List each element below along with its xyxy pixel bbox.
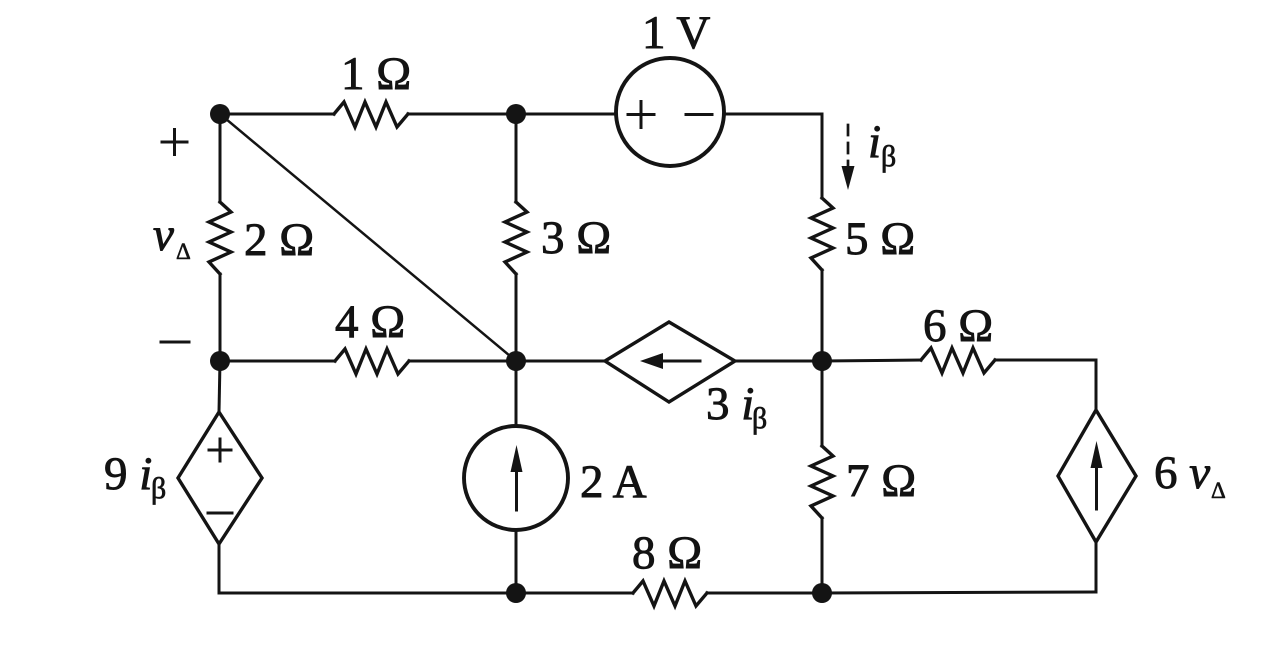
i-beta dashed arrow <box>847 125 850 170</box>
wire mid-left node to 4-ohm <box>220 360 335 363</box>
wire top-left node to 1-ohm resistor <box>220 113 334 116</box>
diagonal wire from top-left node to mid-middle node <box>220 114 516 361</box>
resistor R 8 ohm <box>633 581 707 606</box>
svg-text:8 Ω: 8 Ω <box>632 527 702 579</box>
svg-text:7 Ω: 7 Ω <box>846 455 916 507</box>
svg-text:i: i <box>868 116 881 168</box>
svg-text:Δ: Δ <box>176 239 191 264</box>
resistor R 3 ohm <box>505 202 527 274</box>
resistor R 4 ohm <box>335 349 409 374</box>
node A top-left <box>210 104 230 124</box>
wire 7-ohm to bottom-right-mid node <box>821 518 824 593</box>
wire 6vd diamond to far-right bottom corner <box>1095 542 1098 592</box>
node G bottom-right-mid <box>812 583 832 603</box>
svg-text:β: β <box>752 402 767 435</box>
node B top-middle <box>506 104 526 124</box>
resistor R 6 ohm <box>921 348 995 373</box>
wire 1-ohm to top-middle node <box>408 113 516 116</box>
dependent current source 3 i-beta diamond <box>605 322 735 402</box>
resistor R 5 ohm <box>811 198 833 270</box>
9ib plus sign <box>209 439 231 461</box>
wire 5-ohm to mid-right node <box>821 270 824 361</box>
node F bottom-middle <box>506 583 526 603</box>
resistor R 1 ohm <box>334 102 408 127</box>
wire 2-ohm to mid-left node <box>219 274 222 361</box>
wire mid-left node down to 9ib diamond <box>219 361 220 412</box>
3ib arrow inside diamond <box>655 360 700 363</box>
9ib minus sign <box>208 512 232 515</box>
wire mid-middle node down to 2A source <box>515 361 518 426</box>
wire mid-middle node to 3ib diamond <box>516 360 605 363</box>
wire top-middle node down to 3-ohm <box>515 114 518 202</box>
svg-text:2 Ω: 2 Ω <box>244 214 314 266</box>
wire mid-right node down to 7-ohm <box>821 361 824 446</box>
wire 3-ohm to mid-middle node <box>515 274 518 361</box>
wire bottom-middle node to 8-ohm <box>516 592 633 595</box>
svg-text:6 Ω: 6 Ω <box>923 300 993 352</box>
dependent current source 6 v-delta diamond <box>1058 410 1136 542</box>
minus sign v-delta bottom <box>161 341 189 344</box>
svg-text:v: v <box>153 209 174 261</box>
svg-text:6 v: 6 v <box>1154 447 1210 499</box>
wire far-right top corner down to 6vd diamond <box>1095 360 1098 410</box>
plus sign v-delta top <box>162 130 187 155</box>
svg-text:3 Ω: 3 Ω <box>541 212 611 264</box>
svg-text:3 i: 3 i <box>706 378 754 430</box>
wire 3ib diamond to mid-right node <box>735 360 822 363</box>
svg-text:β: β <box>151 472 166 505</box>
6vd arrow <box>1095 460 1098 509</box>
node E mid-right <box>812 351 832 371</box>
current source 2A circle <box>464 426 568 530</box>
svg-text:1 V: 1 V <box>642 7 710 59</box>
wire top-middle node to 1V source <box>516 113 616 116</box>
svg-text:2 A: 2 A <box>580 456 647 508</box>
1V minus sign <box>686 113 712 116</box>
svg-text:9 i: 9 i <box>104 448 152 500</box>
resistor R 7 ohm <box>811 446 833 518</box>
wire top-left node down to 2-ohm <box>219 114 222 202</box>
wire 4-ohm to mid-middle node <box>409 360 516 363</box>
svg-text:4 Ω: 4 Ω <box>335 296 405 348</box>
svg-text:Δ: Δ <box>1211 478 1226 503</box>
voltage source 1V circle <box>616 58 724 166</box>
svg-text:5 Ω: 5 Ω <box>845 213 915 265</box>
1V plus sign <box>628 102 654 128</box>
wire 9ib diamond to bottom-left corner <box>218 544 221 593</box>
dependent voltage source 9 i-beta diamond <box>178 412 262 544</box>
wire 2A source to bottom-middle node <box>515 530 518 593</box>
wire 1V source to top-right corner <box>724 113 822 116</box>
wire 6-ohm to far-right top corner <box>995 359 1096 362</box>
bottom wire left section <box>219 592 516 595</box>
svg-text:1 Ω: 1 Ω <box>341 48 411 100</box>
node D mid-middle <box>506 351 526 371</box>
wire top-right corner down to 5-ohm <box>821 114 824 198</box>
bottom wire right section <box>822 592 1096 593</box>
2A arrow <box>515 462 518 510</box>
resistor R 2 ohm <box>209 202 231 274</box>
svg-text:β: β <box>881 140 896 173</box>
wire mid-right node to 6-ohm <box>822 360 921 361</box>
node C mid-left <box>210 351 230 371</box>
wire 8-ohm to bottom-right-mid node <box>707 592 822 595</box>
